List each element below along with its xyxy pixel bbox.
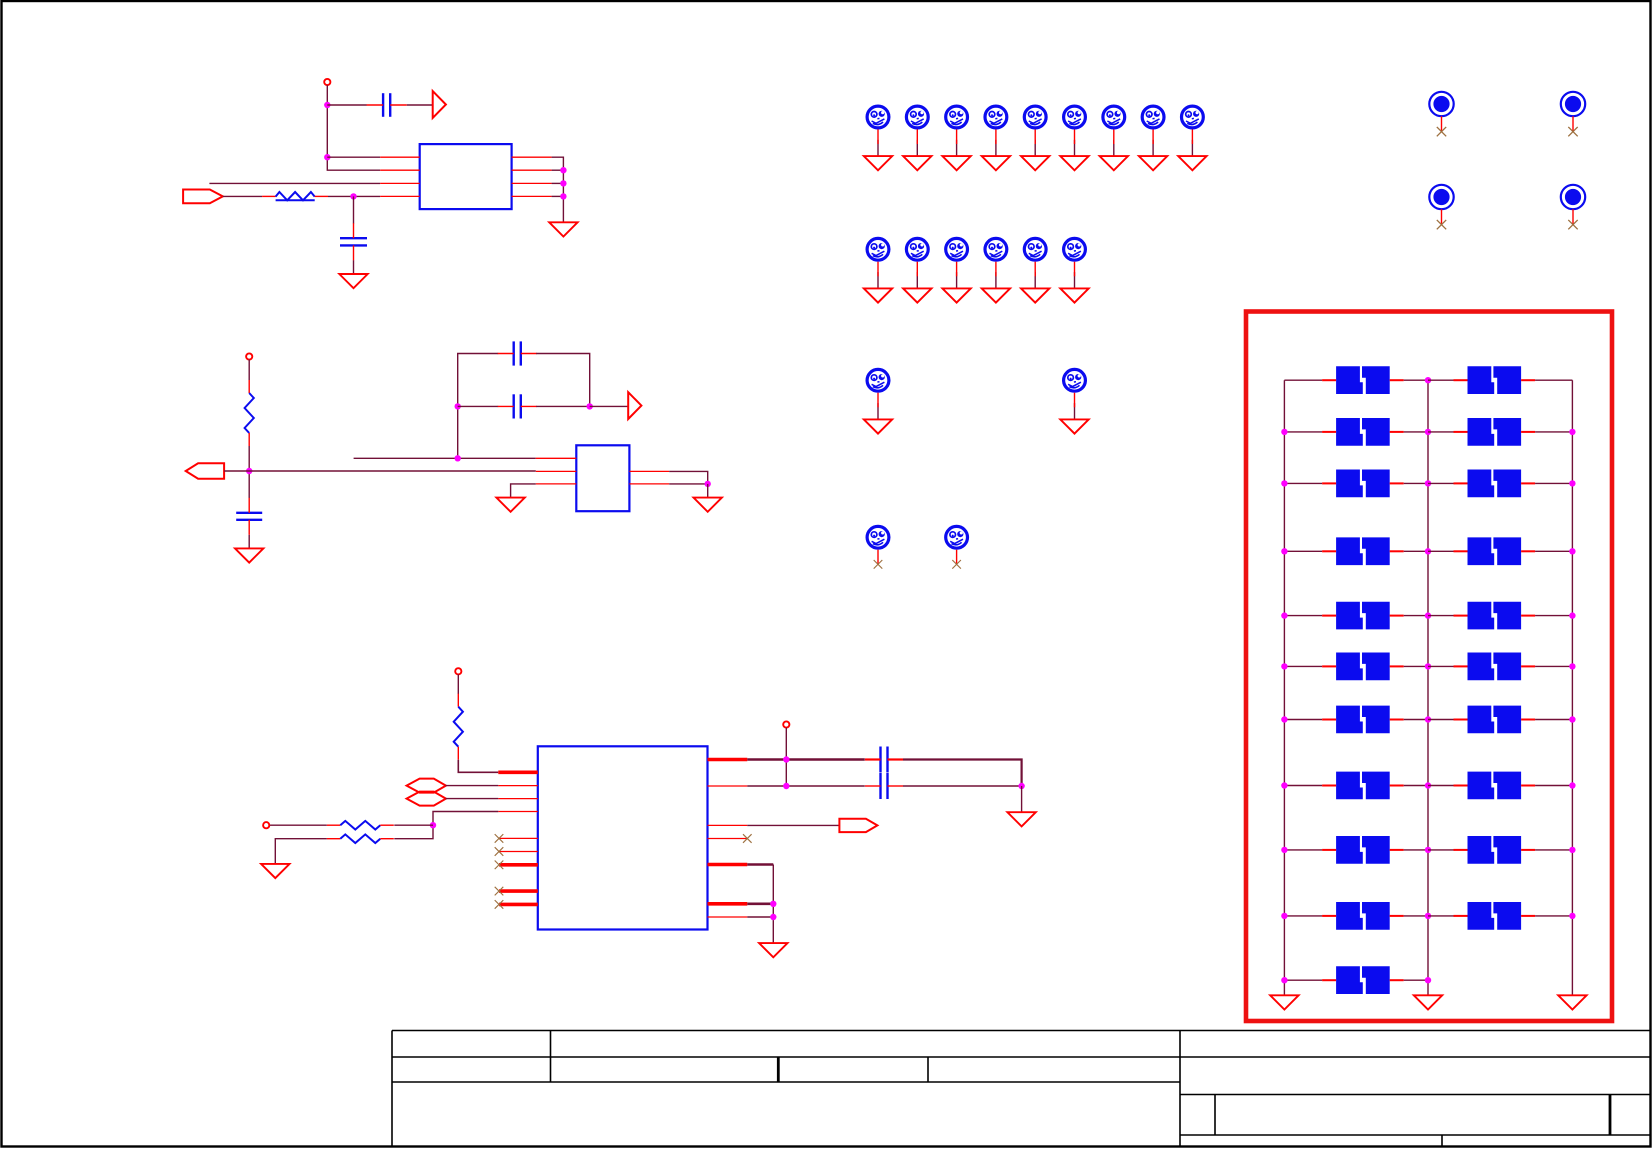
wire xyxy=(407,104,433,106)
wire xyxy=(1113,140,1115,156)
resistor R2 xyxy=(245,380,254,446)
wire xyxy=(669,471,708,484)
pin xyxy=(916,129,918,144)
capacitor CP2 xyxy=(1454,366,1536,394)
ground xyxy=(942,156,970,170)
logo component LG9 (smiley) xyxy=(1182,106,1204,128)
wire xyxy=(394,812,498,839)
ground xyxy=(1270,995,1298,1009)
IC U2 xyxy=(576,445,629,511)
capacitor C7 xyxy=(236,498,262,535)
junction xyxy=(1281,782,1287,788)
pin xyxy=(512,169,552,171)
ground xyxy=(864,156,892,170)
capacitor C1 xyxy=(367,93,407,117)
junction xyxy=(1281,548,1287,554)
no-connect X xyxy=(1437,220,1446,229)
wire xyxy=(1535,915,1572,917)
wire xyxy=(956,272,958,288)
pin xyxy=(498,785,538,787)
wire xyxy=(1284,979,1322,981)
capacitor CP11 xyxy=(1322,653,1404,681)
wire xyxy=(1428,431,1455,433)
wire xyxy=(916,140,918,156)
junction xyxy=(587,403,593,409)
junction xyxy=(1425,377,1431,383)
junction xyxy=(324,154,330,160)
pin xyxy=(1152,129,1154,144)
logo component LG16 (smiley) xyxy=(867,369,889,391)
wire xyxy=(536,354,590,407)
junction xyxy=(1569,480,1575,486)
wire xyxy=(457,674,459,694)
resistor R5 xyxy=(327,834,394,843)
pin xyxy=(995,262,997,277)
junction xyxy=(1281,663,1287,669)
wire xyxy=(772,865,774,944)
pin xyxy=(499,863,538,867)
ground xyxy=(1060,288,1088,302)
wire xyxy=(458,760,498,773)
wire xyxy=(1428,849,1455,851)
wire xyxy=(590,405,629,407)
IC U1 xyxy=(420,144,512,209)
no-connect X xyxy=(495,861,504,870)
pin xyxy=(499,837,538,839)
pin xyxy=(629,483,669,485)
no-connect X xyxy=(1437,127,1446,136)
capacitor CP6 xyxy=(1454,470,1536,498)
mounting hole MH2 xyxy=(1561,92,1585,132)
no-connect X xyxy=(743,834,752,843)
ground xyxy=(339,274,367,288)
wire xyxy=(1284,785,1322,787)
wire xyxy=(1074,403,1076,419)
wire xyxy=(511,484,536,498)
mounting hole MH1 xyxy=(1429,92,1453,132)
wire xyxy=(747,902,773,905)
capacitor CP8 xyxy=(1454,537,1536,565)
ground xyxy=(1060,156,1088,170)
junction xyxy=(1425,977,1431,983)
pin xyxy=(708,758,748,762)
pin xyxy=(916,262,918,277)
wire xyxy=(209,182,380,184)
junction xyxy=(1425,429,1431,435)
pin xyxy=(1034,262,1036,277)
junction xyxy=(1569,612,1575,618)
pin xyxy=(995,129,997,144)
ground xyxy=(1007,812,1035,826)
title block xyxy=(392,1031,1651,1147)
pin xyxy=(498,811,538,813)
wire xyxy=(747,758,865,761)
pin xyxy=(956,129,958,144)
junction xyxy=(1569,782,1575,788)
junction xyxy=(560,167,566,173)
junction xyxy=(1569,548,1575,554)
junction xyxy=(1425,612,1431,618)
wire xyxy=(270,824,327,826)
junction xyxy=(770,901,776,907)
pin xyxy=(956,550,958,565)
wire xyxy=(1404,665,1428,667)
junction xyxy=(1569,716,1575,722)
ground xyxy=(864,288,892,302)
wire xyxy=(747,863,773,866)
wire xyxy=(1404,550,1428,552)
ground xyxy=(982,288,1010,302)
mounting hole MH3 xyxy=(1429,185,1453,225)
wire xyxy=(1535,550,1572,552)
ground xyxy=(261,864,289,878)
wire xyxy=(1074,272,1076,288)
no-connect X xyxy=(495,834,504,843)
wire xyxy=(1284,615,1322,617)
logo component LG10 (smiley) xyxy=(867,238,889,260)
power port P5 xyxy=(783,721,789,727)
ground xyxy=(942,288,970,302)
wire xyxy=(224,470,536,472)
wire xyxy=(275,839,327,864)
wire xyxy=(1535,615,1572,617)
capacitor CP3 xyxy=(1322,418,1404,446)
pin xyxy=(708,838,748,840)
capacitor CP18 xyxy=(1454,836,1536,864)
wire xyxy=(1535,379,1572,381)
junction xyxy=(1281,612,1287,618)
logo component LG11 (smiley) xyxy=(906,238,928,260)
output port OUT2 xyxy=(628,392,641,419)
pin xyxy=(1074,262,1076,277)
logo component LG13 (smiley) xyxy=(985,238,1007,260)
power port P1 xyxy=(324,79,330,85)
pin xyxy=(708,824,748,826)
capacitor CP14 xyxy=(1454,706,1536,734)
pin xyxy=(512,195,552,197)
no-connect X xyxy=(495,887,504,896)
wire xyxy=(354,457,536,459)
wire xyxy=(1428,482,1455,484)
no-connect X xyxy=(495,900,504,909)
pin xyxy=(536,470,577,472)
logo component LG19 (smiley) xyxy=(946,526,968,548)
junction xyxy=(1425,548,1431,554)
pin xyxy=(877,550,879,565)
wire xyxy=(552,157,564,222)
logo component LG1 (smiley) xyxy=(867,106,889,128)
ground xyxy=(1139,156,1167,170)
logo component LG17 (smiley) xyxy=(1064,369,1086,391)
logo component LG14 (smiley) xyxy=(1024,238,1046,260)
wire xyxy=(1284,550,1322,552)
wire xyxy=(669,483,708,485)
wire xyxy=(1404,979,1428,981)
wire xyxy=(223,195,262,197)
logo component LG3 (smiley) xyxy=(946,106,968,128)
pin xyxy=(380,156,420,158)
wire xyxy=(877,140,879,156)
wire xyxy=(1284,915,1322,917)
output port PORT2 xyxy=(186,463,224,478)
wire xyxy=(1191,140,1193,156)
junction xyxy=(1425,716,1431,722)
junction xyxy=(1281,977,1287,983)
ground xyxy=(496,498,524,512)
pin xyxy=(498,770,538,774)
junction xyxy=(705,481,711,487)
output port OUT1 xyxy=(433,91,446,118)
junction xyxy=(783,756,789,762)
capacitor CP1 xyxy=(1322,366,1404,394)
wire (right bus) xyxy=(1571,380,1573,995)
ground xyxy=(903,156,931,170)
ground xyxy=(549,222,577,236)
junction xyxy=(1018,783,1024,789)
ground xyxy=(1060,419,1088,433)
ground xyxy=(903,288,931,302)
capacitor CP13 xyxy=(1322,706,1404,734)
junction xyxy=(455,403,461,409)
capacitor CP7 xyxy=(1322,537,1404,565)
capacitor C4 xyxy=(498,394,537,418)
wire xyxy=(353,196,355,223)
wire xyxy=(1404,915,1428,917)
pin xyxy=(499,851,538,853)
wire (middle bus) xyxy=(1427,380,1429,995)
no-connect X xyxy=(1568,220,1577,229)
wire (left bus) xyxy=(1283,380,1285,995)
pin xyxy=(498,798,538,800)
wire xyxy=(458,354,499,459)
wire xyxy=(903,760,1022,787)
junction xyxy=(770,914,776,920)
resistor R1 xyxy=(262,192,328,200)
wire xyxy=(394,824,433,826)
capacitor CP4 xyxy=(1454,418,1536,446)
wire xyxy=(1404,785,1428,787)
logo component LG7 (smiley) xyxy=(1103,106,1125,128)
wire xyxy=(995,272,997,288)
wire xyxy=(446,798,499,800)
junction xyxy=(1425,663,1431,669)
no-connect X xyxy=(495,847,504,856)
pin xyxy=(956,262,958,277)
wire xyxy=(1074,140,1076,156)
junction xyxy=(1569,847,1575,853)
logo component LG5 (smiley) xyxy=(1024,106,1046,128)
wire xyxy=(747,785,865,787)
wire xyxy=(1404,482,1428,484)
ground xyxy=(1558,995,1586,1009)
logo component LG18 (smiley) xyxy=(867,526,889,548)
junction xyxy=(324,102,330,108)
wire xyxy=(785,728,787,786)
logo component LG4 (smiley) xyxy=(985,106,1007,128)
pin xyxy=(499,889,538,893)
power port P3 xyxy=(455,668,461,674)
wire xyxy=(1284,849,1322,851)
junction xyxy=(1569,429,1575,435)
wire xyxy=(1535,482,1572,484)
capacitor C3 xyxy=(498,341,537,365)
wire xyxy=(956,140,958,156)
pin xyxy=(1074,129,1076,144)
wire xyxy=(327,104,367,106)
ground xyxy=(1100,156,1128,170)
pin xyxy=(380,182,420,184)
wire xyxy=(552,169,564,171)
logo component LG6 (smiley) xyxy=(1064,106,1086,128)
wire xyxy=(995,140,997,156)
junction xyxy=(1281,716,1287,722)
wire xyxy=(1428,665,1455,667)
no-connect X xyxy=(952,560,961,569)
wire xyxy=(747,916,773,918)
wire xyxy=(536,405,590,407)
junction xyxy=(1281,429,1287,435)
junction xyxy=(1425,480,1431,486)
wire xyxy=(1034,272,1036,288)
no-connect X xyxy=(1568,127,1577,136)
junction xyxy=(1569,913,1575,919)
pin xyxy=(708,916,748,918)
wire xyxy=(1428,379,1455,381)
pin xyxy=(708,902,748,906)
capacitor C5 xyxy=(865,747,903,773)
wire xyxy=(327,156,380,158)
wire xyxy=(916,272,918,288)
ground xyxy=(1021,156,1049,170)
capacitor CP9 xyxy=(1322,602,1404,630)
wire xyxy=(1428,719,1455,721)
wire xyxy=(1152,140,1154,156)
ground xyxy=(694,498,722,512)
pin xyxy=(536,483,577,485)
wire xyxy=(327,85,380,170)
no-connect X xyxy=(874,560,883,569)
wire xyxy=(1535,849,1572,851)
wire xyxy=(458,405,499,407)
ground xyxy=(235,548,263,562)
ground xyxy=(1414,995,1442,1009)
capacitor CP15 xyxy=(1322,772,1404,800)
wire xyxy=(1034,140,1036,156)
capacitor CP21 xyxy=(1322,966,1404,994)
resistor R4 xyxy=(327,821,394,830)
ground xyxy=(759,943,787,957)
wire xyxy=(1535,719,1572,721)
junction xyxy=(350,193,356,199)
logo component LG2 (smiley) xyxy=(906,106,928,128)
capacitor CP12 xyxy=(1454,653,1536,681)
wire xyxy=(353,260,355,274)
pin xyxy=(380,169,420,171)
wire xyxy=(1021,786,1023,812)
ground xyxy=(1178,156,1206,170)
wire xyxy=(1284,665,1322,667)
wire xyxy=(1284,431,1322,433)
junction xyxy=(1425,782,1431,788)
pin xyxy=(1034,129,1036,144)
pin xyxy=(1113,129,1115,144)
junction xyxy=(783,783,789,789)
wire xyxy=(552,195,564,197)
capacitor C6 xyxy=(865,773,903,799)
wire xyxy=(877,403,879,419)
wire xyxy=(707,484,709,498)
power port P4 xyxy=(263,822,269,828)
pin xyxy=(512,182,552,184)
IC U3 xyxy=(538,746,708,929)
wire xyxy=(1535,785,1572,787)
junction xyxy=(1281,913,1287,919)
capacitor CP5 xyxy=(1322,470,1404,498)
wire xyxy=(747,824,839,826)
power port P2 xyxy=(246,353,252,359)
pin xyxy=(380,195,420,197)
wire xyxy=(552,182,564,184)
pin xyxy=(629,470,669,472)
wire xyxy=(1428,785,1455,787)
logo component LG8 (smiley) xyxy=(1142,106,1164,128)
capacitor CP19 xyxy=(1322,902,1404,930)
junction xyxy=(1569,663,1575,669)
wire xyxy=(1404,719,1428,721)
logo component LG15 (smiley) xyxy=(1064,238,1086,260)
mounting hole MH4 xyxy=(1561,185,1585,225)
junction xyxy=(430,822,436,828)
wire xyxy=(1535,431,1572,433)
ground xyxy=(982,156,1010,170)
wire xyxy=(1428,915,1455,917)
wire xyxy=(1404,379,1428,381)
resistor R3 xyxy=(454,694,463,760)
wire xyxy=(1284,719,1322,721)
capacitor CP17 xyxy=(1322,836,1404,864)
pin xyxy=(1191,129,1193,144)
wire xyxy=(903,785,1022,787)
pin xyxy=(877,262,879,277)
wire xyxy=(248,535,250,549)
pin xyxy=(708,785,748,787)
pin xyxy=(536,457,577,459)
wire xyxy=(1535,665,1572,667)
wire xyxy=(1284,379,1322,381)
junction xyxy=(1281,480,1287,486)
wire xyxy=(248,446,250,498)
wire xyxy=(877,272,879,288)
wire xyxy=(446,785,499,787)
pin xyxy=(877,393,879,408)
ground xyxy=(864,419,892,433)
junction xyxy=(1281,847,1287,853)
pin xyxy=(1074,393,1076,408)
junction xyxy=(1425,847,1431,853)
wire xyxy=(1284,482,1322,484)
ground xyxy=(1021,288,1049,302)
pin xyxy=(877,129,879,144)
junction xyxy=(560,193,566,199)
wire xyxy=(1404,615,1428,617)
pin xyxy=(512,156,552,158)
output port PORT3 xyxy=(839,819,877,832)
capacitor C2 xyxy=(340,223,367,260)
junction xyxy=(1425,913,1431,919)
wire xyxy=(1404,431,1428,433)
junction xyxy=(560,180,566,186)
junction xyxy=(246,468,252,474)
